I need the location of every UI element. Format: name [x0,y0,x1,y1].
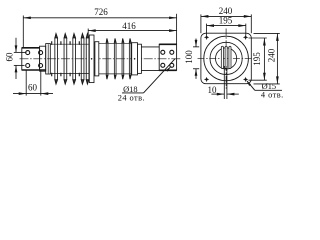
slot 3 [229,46,231,68]
corner hole bottom-right [244,78,247,81]
bolt hole right flange bottom-left [161,63,165,67]
bottom dim 60 extension left x26.2 [25,71,27,96]
label O18 leader arrow [166,66,172,72]
dim 726 left arrow [23,16,31,19]
base cylinder bottom line left section [50,72,89,74]
svg-text:195: 195 [219,16,233,26]
connecting rod bottom [141,70,159,72]
dim 726 line [23,17,176,19]
svg-text:10: 10 [208,85,218,95]
right flange block [159,44,176,70]
svg-text:416: 416 [122,21,136,31]
base cylinder top line left section [50,43,89,45]
dim 240 right top arrow [276,33,279,41]
dim 195 top line [207,25,246,27]
short shed stub x60.9 [60,41,62,76]
center block [89,35,94,83]
tall shed x130.2 [129,42,131,75]
dim 416 left arrow [88,29,96,32]
dim 240 right arrow [244,15,252,18]
dim 100 left line [195,39,197,79]
corner hole top-right [244,36,247,39]
dim 10 right arrow [227,93,235,96]
step block 2 [138,44,142,73]
label O15 leader arrow [246,80,251,86]
short shed stub x51.7 [51,41,53,76]
corner hole bottom-left [205,78,208,81]
extension 195 right bottom [249,79,267,81]
bolt hole bottom-left [26,64,30,68]
dim 10 line right segment [227,93,239,95]
dim 240 left arrow [201,15,209,18]
dim 60 top arrow [15,45,18,52]
slot 2 [225,46,227,68]
dim 195 left arrow [207,24,215,27]
extension 195 right [245,24,247,36]
base cylinder bottom line right section [99,73,132,75]
dim 60 bottom arrow [15,65,18,72]
left flange plate [22,48,40,70]
svg-text:240: 240 [219,6,233,16]
svg-text:100: 100 [184,50,194,64]
dim 726 right arrow [169,16,177,19]
centerline left view [20,58,182,60]
bolt hole top-right [39,51,43,55]
extension 195 right top [249,37,267,39]
extension 240 right [250,14,252,33]
bolt hole right flange top-right [170,50,174,54]
svg-text:726: 726 [94,7,108,17]
corner hole top-left [205,36,208,39]
end ring inner line [47,44,49,73]
tall shed x56.2 [55,38,58,80]
extension line left x23.3 [22,16,24,48]
bolt hole right flange top-left [161,50,165,54]
step ring right of block [95,42,99,76]
dim 416 line [88,30,176,32]
extension 195 left [206,24,208,36]
tall shed x87.6 [86,38,89,80]
dim 10 left arrow [217,93,225,96]
extension tick bottom y65.4 [14,64,25,66]
svg-text:60: 60 [5,52,15,62]
dim 240 right bottom arrow [276,76,279,84]
tall shed x107.1 [106,42,108,75]
dim 100 top arrow [195,40,198,47]
dim 10 line left segment [211,93,224,95]
center block dot [91,58,93,60]
extension tick 100 top [193,46,199,48]
tall shed x122.9 [122,42,124,75]
bolt hole bottom-right [39,64,43,68]
dim 195 right bottom arrow [263,73,266,81]
outer circle [204,36,249,81]
extension tick top y52.4 [14,51,27,53]
extension line right x176.6 [176,14,178,44]
porcelain end ring [46,44,51,74]
extension 240 right top [254,32,280,34]
view horizontal centerline [198,57,255,59]
connecting rod top [141,46,159,48]
bottom dim 60 extension right x40.8 [40,71,42,96]
label O15 leader [247,81,255,90]
dim 10 extension right [226,66,228,99]
bottom dim 60 left arrow [19,92,27,95]
label O15 shelf [255,89,282,91]
short shed stub x79.3 [78,41,80,76]
bolt hole top-left [26,51,30,55]
dim 240 right line [276,33,278,84]
left flange collar [40,46,46,71]
dim 240 top line [201,15,251,17]
middle circle [210,42,242,74]
dim 100 bottom arrow [195,69,198,76]
svg-text:195: 195 [252,52,262,66]
svg-text:24 отв.: 24 отв. [118,93,145,102]
extension tick 100 bottom [193,68,199,70]
step block 1 [132,43,138,75]
bolt hole right flange bottom-right [170,63,174,67]
vertical dim 60 line left [15,38,17,79]
extension line 416 left x88.2 [87,29,89,36]
dim 416 right arrow [169,29,177,32]
short shed stub x70.1 [69,41,71,76]
dim 195 right arrow [238,24,246,27]
tall shed x74.2 [73,38,76,80]
extension 240 left [200,14,202,33]
dim 10 extension left [223,66,225,99]
label O18 shelf [122,92,144,94]
dim 195 right line [263,38,265,80]
extension 240 right bottom [254,83,280,85]
step block 1 dot [134,58,136,60]
bottom dim 60 right arrow [41,92,49,95]
label O18 leader [144,59,176,93]
plate square rounded [201,33,251,83]
tall shed x65.4 [64,38,67,80]
svg-text:60: 60 [28,82,38,92]
bottom dim 60 line [13,93,53,95]
tall shed x115.2 [114,42,116,75]
base cylinder top line right section [99,43,132,45]
svg-text:240: 240 [267,48,277,62]
view vertical centerline [225,29,227,89]
tall shed x82.6 [81,38,84,80]
dim 195 right top arrow [263,38,266,46]
slot 1 [221,46,223,68]
hub circle [216,48,237,69]
svg-text:4 отв.: 4 отв. [261,90,284,99]
